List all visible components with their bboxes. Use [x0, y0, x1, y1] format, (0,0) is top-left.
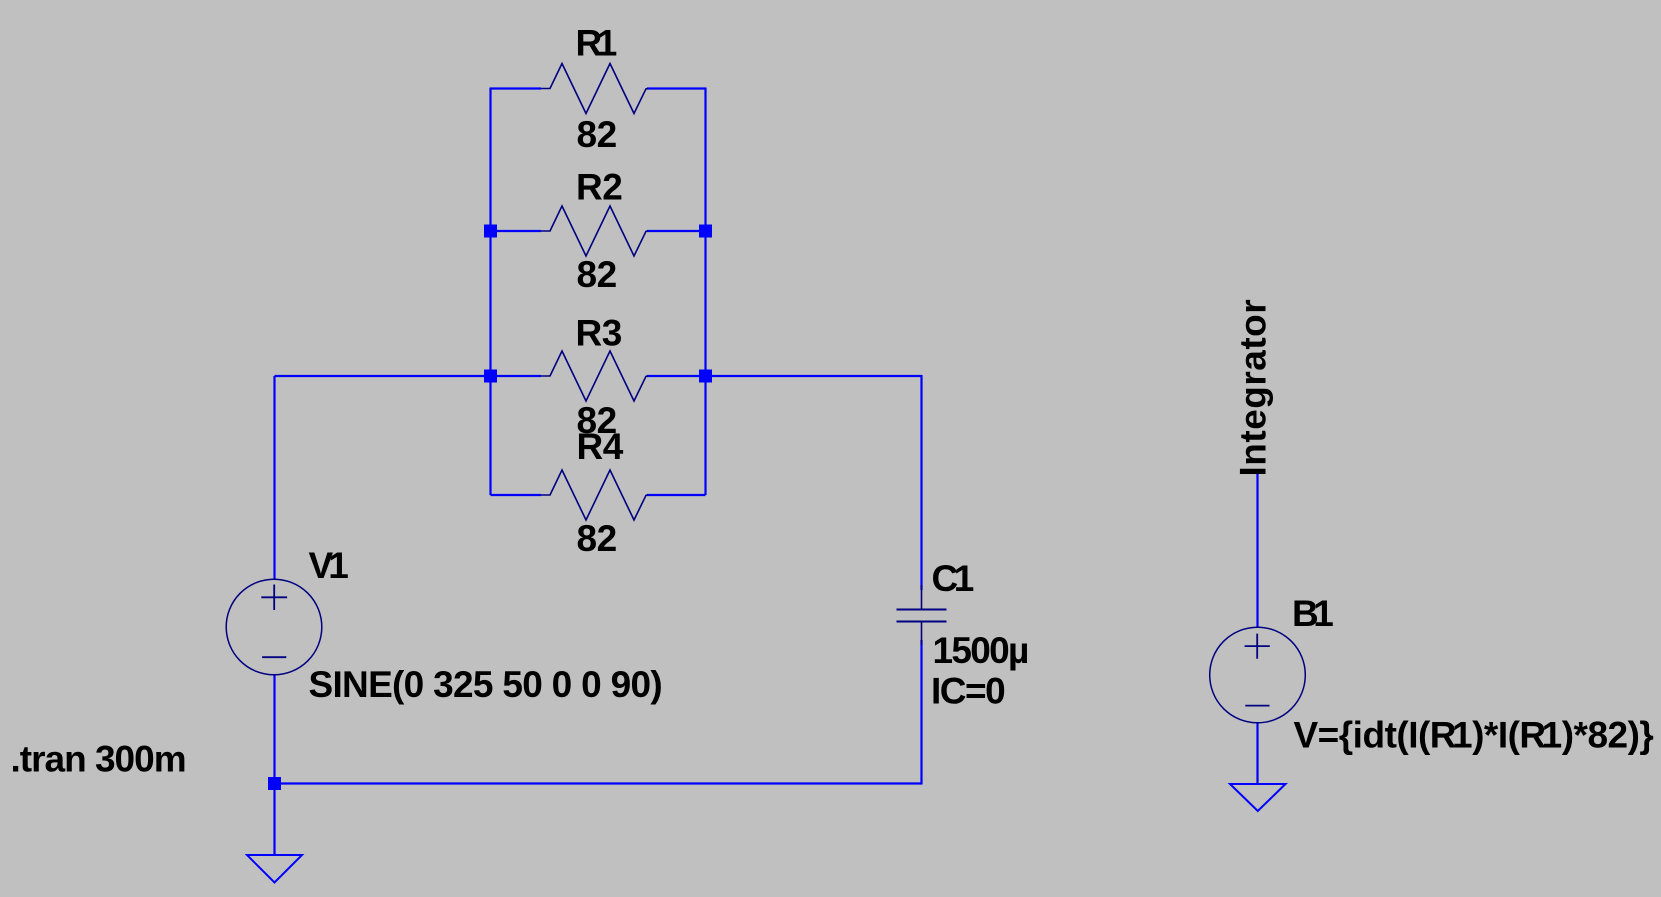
- junction right R3: [699, 370, 712, 383]
- svg-text:82: 82: [577, 254, 617, 295]
- wire R4 right lead: [647, 494, 706, 496]
- wire C1 top: [920, 375, 922, 590]
- bv source B1 body: [1210, 627, 1306, 723]
- wire R2 right lead: [647, 230, 706, 232]
- wire right rail to C1: [647, 375, 922, 377]
- wire node in to left rail: [275, 375, 542, 377]
- svg-text:B1: B1: [1292, 593, 1333, 634]
- B1 minus sign: [1245, 705, 1269, 707]
- wire B1 top stub: [1256, 474, 1258, 628]
- svg-text:V={idt(I(R1)*I(R1)*82)}: V={idt(I(R1)*I(R1)*82)}: [1294, 715, 1654, 756]
- ground B1: [1230, 784, 1286, 811]
- svg-text:C1: C1: [932, 558, 974, 599]
- V1 plus sign: [261, 585, 287, 611]
- capacitor C1 bottom plate: [897, 621, 947, 623]
- wire V1 bottom: [273, 675, 275, 784]
- wire bottom net: [275, 782, 922, 784]
- wire R4 left lead: [491, 494, 542, 496]
- junction bottom node: [268, 777, 281, 790]
- svg-text:R2: R2: [576, 167, 622, 208]
- wire left rail: [489, 88, 491, 496]
- svg-text:Integrator: Integrator: [1233, 299, 1274, 477]
- wire B1 ground stub: [1256, 723, 1258, 785]
- svg-text:R3: R3: [576, 313, 622, 354]
- ground V1: [247, 855, 302, 883]
- capacitor C1 top plate: [897, 609, 947, 611]
- resistor R3: [541, 351, 648, 401]
- svg-text:82: 82: [577, 114, 617, 155]
- V1 minus sign: [262, 656, 286, 658]
- wire right rail: [704, 88, 706, 496]
- wire R2 left lead: [491, 230, 542, 232]
- svg-text:.tran 300m: .tran 300m: [11, 739, 186, 780]
- svg-text:R4: R4: [577, 426, 624, 467]
- svg-text:SINE(0 325 50 0 0 90): SINE(0 325 50 0 0 90): [309, 664, 662, 705]
- svg-text:V1: V1: [309, 545, 349, 586]
- wire V1 top: [273, 376, 275, 580]
- resistor R1: [541, 64, 648, 114]
- wire C1 bottom: [920, 640, 922, 785]
- svg-text:R1: R1: [576, 23, 617, 64]
- junction right R2: [699, 225, 712, 238]
- junction left R2: [484, 225, 497, 238]
- wire V1 ground stub: [273, 784, 275, 856]
- resistor R4: [541, 470, 648, 520]
- junction left R3: [484, 370, 497, 383]
- svg-text:1500µ: 1500µ: [933, 630, 1029, 671]
- voltage source V1 body: [226, 579, 322, 675]
- B1 plus sign: [1245, 634, 1270, 659]
- svg-text:82: 82: [577, 518, 617, 559]
- resistor R2: [541, 206, 648, 256]
- wire R1 left lead: [491, 87, 542, 89]
- capacitor C1 bottom lead: [921, 622, 923, 646]
- capacitor C1 top lead: [921, 585, 923, 610]
- svg-text:IC=0: IC=0: [931, 671, 1005, 712]
- wire R1 right lead: [647, 87, 706, 89]
